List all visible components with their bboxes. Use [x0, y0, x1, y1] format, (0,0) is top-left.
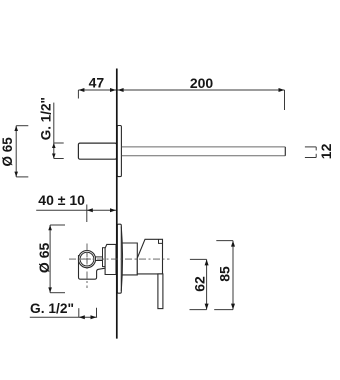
svg-text:200: 200 — [190, 75, 214, 91]
dimension text 200 — [190, 75, 214, 91]
valve vertical centerline — [86, 244, 88, 289]
extension line right of dim 200 — [284, 90, 286, 110]
valve inlet nipple — [96, 257, 103, 261]
extension line left of dim 47 — [77, 90, 79, 99]
arrowhead dim200 left — [118, 88, 124, 92]
dimension text 62 — [191, 276, 207, 292]
cartridge outer circle — [78, 251, 95, 268]
dimension marks 12 — [305, 147, 316, 158]
svg-text:Ø 65: Ø 65 — [36, 243, 52, 274]
svg-text:40 ± 10: 40 ± 10 — [38, 192, 85, 208]
spout body — [78, 143, 116, 159]
dimension line 47/200 — [78, 89, 284, 91]
label G. 1/2" (top) — [39, 97, 54, 140]
svg-text:12: 12 — [318, 143, 334, 159]
handle cylinder — [122, 243, 137, 275]
cartridge inner circle — [80, 252, 94, 266]
label G. 1/2" (bottom) — [30, 300, 74, 316]
svg-text:62: 62 — [191, 276, 207, 292]
arrowhead 40 right — [110, 208, 116, 212]
arrowhead dim47 left — [78, 88, 84, 92]
dimension line 40+/-10 — [36, 209, 116, 211]
dimension 85 — [214, 241, 235, 310]
arrowhead 40 left — [87, 208, 93, 212]
arrowhead dim200 right — [279, 88, 285, 92]
handle set screw notch — [159, 239, 163, 243]
dimension 62 — [190, 259, 209, 309]
leader line G 1/2 top — [52, 103, 64, 159]
dimension text 40 +/- 10 — [38, 192, 85, 208]
svg-text:47: 47 — [89, 75, 105, 91]
dimension text 85 — [217, 266, 233, 282]
valve plate — [103, 248, 106, 267]
spout tube — [122, 147, 285, 156]
svg-text:G. 1/2": G. 1/2" — [30, 300, 74, 316]
arrowhead dim47 right — [110, 88, 116, 92]
leader line G 1/2 bottom — [30, 308, 97, 320]
handle body — [137, 239, 162, 274]
dimension bracket diameter 65 bottom — [48, 225, 65, 293]
dimension text 12 — [318, 143, 334, 159]
dimension bracket diameter 65 top — [14, 126, 28, 177]
dimension text 47 — [89, 75, 105, 91]
cartridge cross marks — [81, 253, 93, 265]
spout flange — [117, 126, 121, 177]
label diameter 65 (top) — [0, 137, 15, 167]
label diameter 65 (bottom) — [36, 243, 52, 274]
valve horizontal centerline — [69, 258, 170, 260]
wall line — [116, 69, 118, 339]
valve block at wall — [105, 244, 116, 274]
svg-text:G. 1/2": G. 1/2" — [39, 97, 54, 140]
valve body — [79, 255, 106, 279]
svg-text:Ø 65: Ø 65 — [0, 137, 15, 167]
handle lever — [158, 274, 163, 309]
mixer flange — [117, 224, 122, 293]
extension tick 40+/-10 — [86, 205, 88, 223]
svg-text:85: 85 — [217, 266, 233, 282]
